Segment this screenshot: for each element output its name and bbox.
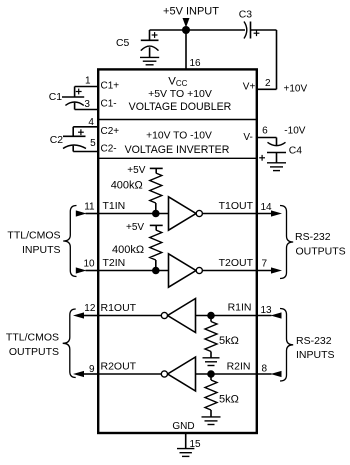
wire pin 12 external <box>84 315 99 317</box>
svg-text:RS-232: RS-232 <box>296 335 332 347</box>
arrow into pin 11 <box>76 210 87 216</box>
internal divider line 1 (below voltage doubler section) <box>98 119 257 121</box>
svg-text:12: 12 <box>84 303 96 314</box>
svg-text:16: 16 <box>190 58 202 69</box>
svg-text:6: 6 <box>262 126 268 137</box>
svg-text:R2IN: R2IN <box>227 360 251 372</box>
wire resistor2 to T2IN node <box>155 260 157 271</box>
wire +5V node to C3 left <box>150 29 246 31</box>
svg-text:1: 1 <box>85 76 91 87</box>
svg-text:GND: GND <box>172 421 194 432</box>
svg-text:8: 8 <box>262 363 268 374</box>
svg-text:TTL/CMOS: TTL/CMOS <box>6 332 59 344</box>
svg-text:+5V: +5V <box>127 165 145 176</box>
svg-text:9: 9 <box>89 364 95 375</box>
brace RS-232 inputs <box>280 309 293 382</box>
wire C3 right to corner <box>251 29 277 31</box>
svg-text:+5V INPUT: +5V INPUT <box>163 5 219 17</box>
svg-text:R1OUT: R1OUT <box>101 302 137 314</box>
+5V input arrow <box>183 18 190 28</box>
svg-text:C1+: C1+ <box>101 81 120 92</box>
resistor 400k #1 <box>150 173 162 203</box>
svg-text:C2+: C2+ <box>101 126 120 137</box>
node dot T2IN junction <box>152 267 160 275</box>
op-amp buffer R1 (inverting receiver) <box>161 299 195 333</box>
svg-text:2: 2 <box>265 78 271 89</box>
arrow out of pin 7 <box>271 267 282 273</box>
brace TTL/CMOS outputs <box>63 309 76 378</box>
wire pin 15 stub <box>185 433 187 448</box>
svg-text:4: 4 <box>88 117 94 128</box>
svg-text:VOLTAGE INVERTER: VOLTAGE INVERTER <box>125 144 230 156</box>
node dot R1IN junction <box>207 312 215 320</box>
svg-text:+5V: +5V <box>126 222 144 233</box>
svg-text:400kΩ: 400kΩ <box>112 244 144 256</box>
svg-text:C1: C1 <box>49 92 63 103</box>
wire V+ vertical (C3 to pin 2) <box>276 30 278 89</box>
svg-text:7: 7 <box>262 259 268 270</box>
arrow into pin 13 <box>271 312 282 318</box>
wire pin 11 external <box>86 213 99 215</box>
ground for pin 15 <box>177 449 194 457</box>
arrow into pin 8 <box>271 371 282 377</box>
svg-text:OUTPUTS: OUTPUTS <box>9 346 59 358</box>
svg-text:14: 14 <box>261 202 273 213</box>
svg-text:T1IN: T1IN <box>103 200 126 212</box>
svg-text:+10V: +10V <box>284 83 308 94</box>
svg-text:TTL/CMOS: TTL/CMOS <box>7 230 60 242</box>
svg-text:R1IN: R1IN <box>228 302 252 314</box>
node dot +5V input junction <box>182 26 190 34</box>
ground for C4 <box>267 163 286 171</box>
wire T2OUT row (buffer to pin 7 arrow) <box>202 270 271 272</box>
arrow out of pin 14 <box>271 210 282 216</box>
capacitor C5 <box>141 30 159 57</box>
op-amp buffer T1 (inverting transmitter) <box>169 197 203 230</box>
wire pin 16 stub <box>185 30 187 69</box>
wire R2IN row (buffer to pin 8 arrow) <box>196 373 272 375</box>
brace RS-232 outputs <box>280 206 293 279</box>
svg-text:C5: C5 <box>116 38 130 49</box>
svg-text:5kΩ: 5kΩ <box>219 394 239 406</box>
svg-text:5kΩ: 5kΩ <box>219 335 239 347</box>
svg-text:+10V TO -10V: +10V TO -10V <box>146 131 212 142</box>
resistor 5k #1 <box>205 316 217 358</box>
wire R2OUT row (pin 9 to buffer bubble) <box>98 373 161 375</box>
node dot R2IN junction <box>207 370 215 378</box>
op-amp buffer T2 (inverting transmitter) <box>169 254 203 287</box>
resistor 400k #2 <box>150 230 162 260</box>
svg-text:RS-232: RS-232 <box>295 231 331 243</box>
IC body U1 (MAX232 block) <box>98 69 257 433</box>
svg-text:V-: V- <box>243 132 252 143</box>
arrow into pin 10 <box>76 267 87 273</box>
svg-text:11: 11 <box>84 202 95 213</box>
svg-text:VOLTAGE DOUBLER: VOLTAGE DOUBLER <box>129 101 232 113</box>
brace TTL/CMOS inputs <box>63 206 76 277</box>
ground for 5k #1 <box>203 358 220 366</box>
svg-text:C4: C4 <box>289 146 303 157</box>
svg-text:OUTPUTS: OUTPUTS <box>296 245 346 257</box>
capacitor C4 <box>259 138 286 163</box>
svg-text:10: 10 <box>83 259 95 270</box>
internal divider line 2 (below voltage inverter section) <box>98 157 257 159</box>
wire R1OUT row (pin 12 to buffer bubble) <box>98 315 161 317</box>
svg-text:C2: C2 <box>50 135 64 146</box>
svg-text:13: 13 <box>261 305 273 316</box>
svg-text:INPUTS: INPUTS <box>296 349 335 361</box>
+5V supply T-bar for R pullup 2 <box>150 225 163 230</box>
capacitor C2 <box>63 127 98 152</box>
svg-text:INPUTS: INPUTS <box>22 244 61 256</box>
svg-text:5: 5 <box>90 138 96 149</box>
node dot T1IN junction <box>152 210 160 218</box>
ground for 5k #2 <box>202 417 221 425</box>
svg-text:C1-: C1- <box>101 98 117 109</box>
wire R1IN row (buffer to pin 13 arrow) <box>196 315 272 317</box>
wire T1OUT row (buffer to pin 14 arrow) <box>202 213 271 215</box>
wire pin 10 external <box>86 270 99 272</box>
svg-text:T2OUT: T2OUT <box>219 257 254 269</box>
svg-text:-10V: -10V <box>284 126 305 137</box>
resistor 5k #2 <box>205 374 217 417</box>
arrow out of pin 12 <box>73 312 84 318</box>
svg-text:V+: V+ <box>243 82 256 93</box>
svg-text:T2IN: T2IN <box>103 257 126 269</box>
svg-text:VCC: VCC <box>168 76 187 88</box>
+5V supply T-bar for R pullup 1 <box>150 168 163 173</box>
wire resistor1 to T1IN node <box>155 203 157 214</box>
svg-text:T1OUT: T1OUT <box>219 200 254 212</box>
op-amp buffer R2 (inverting receiver) <box>161 357 195 391</box>
svg-text:3: 3 <box>84 99 90 110</box>
svg-text:R2OUT: R2OUT <box>101 360 137 372</box>
arrow out of pin 9 <box>73 371 84 377</box>
svg-text:400kΩ: 400kΩ <box>111 179 143 191</box>
wire T2IN row (box edge to buffer) <box>98 270 168 272</box>
capacitor C1 <box>62 87 98 110</box>
svg-text:C3: C3 <box>239 9 253 20</box>
wire T1IN row (box edge to buffer) <box>98 213 168 215</box>
svg-text:+5V TO +10V: +5V TO +10V <box>148 88 212 100</box>
wire pin 9 external <box>84 373 99 375</box>
capacitor C3 <box>244 22 259 39</box>
wire pin 2 horizontal <box>257 88 277 90</box>
ground for C5 <box>140 57 159 64</box>
svg-text:C2-: C2- <box>101 144 117 155</box>
wire pin 6 horizontal <box>257 137 277 139</box>
